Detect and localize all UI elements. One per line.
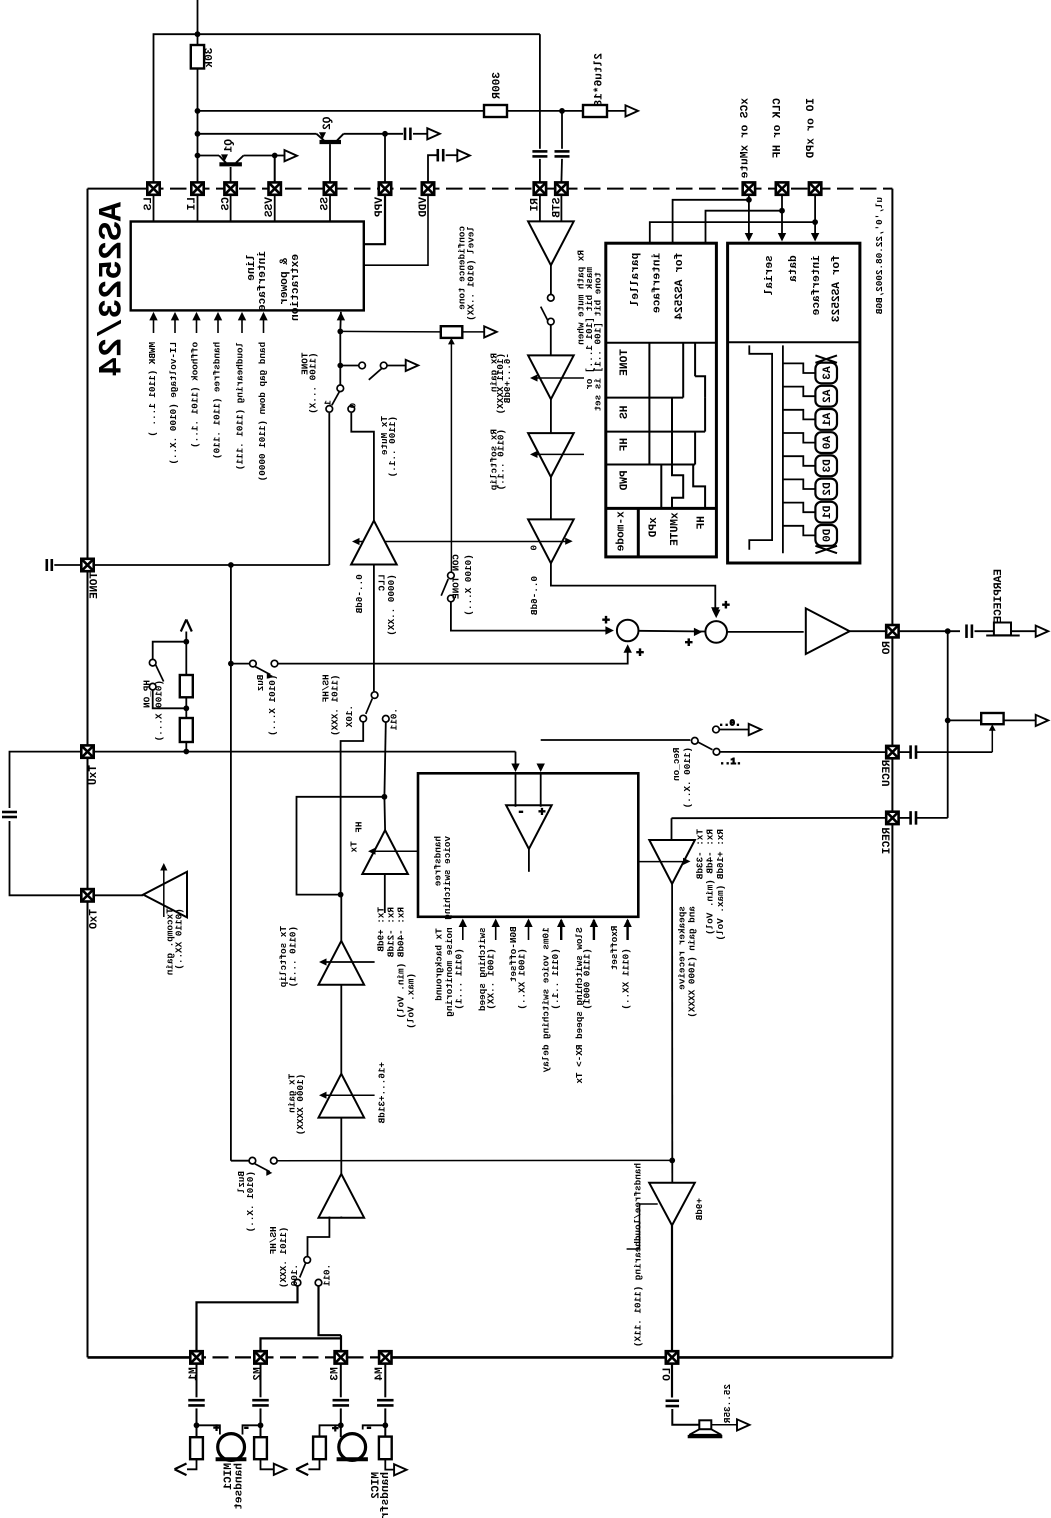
svg-text:(1101 .XXX): (1101 .XXX) (329, 675, 340, 736)
svg-text:for AS2523: for AS2523 (831, 255, 843, 322)
wire switch common up (339, 331, 341, 385)
junction Tx mute branch (337, 363, 343, 369)
amplifier LLC (351, 521, 397, 565)
svg-text:handset: handset (234, 1463, 246, 1510)
capacitor VDD decoupling (436, 149, 439, 162)
svg-text:TxO: TxO (89, 909, 101, 929)
junction pot net (945, 718, 951, 724)
svg-text:ul,'0',22.08.2002,BGB: ul,'0',22.08.2002,BGB (874, 197, 885, 315)
svg-text:25..35R: 25..35R (722, 1384, 733, 1423)
wire into summing 1 (451, 602, 606, 631)
svg-text:.011: .011 (389, 708, 400, 731)
svg-text:D0: D0 (822, 529, 834, 543)
svg-text:.011: .011 (322, 1264, 333, 1287)
gain control arrow Rx gain (533, 377, 584, 379)
off-page arrow speaker return (737, 1419, 750, 1430)
svg-text:(0111 XX..): (0111 XX..) (621, 948, 632, 1009)
svg-text:(1001 ..XX): (1001 ..XX) (485, 948, 496, 1009)
svg-text:and gain (1000 XXXX): and gain (1000 XXXX) (687, 906, 698, 1018)
wire VPP into block (364, 195, 385, 244)
capacitor earpiece coupling (965, 624, 968, 638)
svg-text:(0111 ...1): (0111 ...1) (454, 948, 465, 1009)
svg-text:tone bit [100 ..1] is set: tone bit [100 ..1] is set (593, 272, 604, 411)
junction LI/RI line (195, 31, 201, 37)
switch HS/HF mic select (304, 1257, 311, 1264)
svg-text:handsfree (1101 .110): handsfree (1101 .110) (212, 342, 223, 459)
svg-text:handsfree/loudhearing (1101 .1: handsfree/loudhearing (1101 .11X) (632, 1163, 643, 1347)
svg-text:VSS: VSS (264, 197, 276, 217)
resistor HP divider upper (180, 675, 193, 697)
svg-text:(0111 ..1.): (0111 ..1.) (550, 948, 561, 1009)
pin TxO (81, 889, 93, 901)
junction HF Tx output (382, 794, 388, 800)
svg-text:Q2: Q2 (322, 117, 334, 131)
resistor MIC2 bias - (379, 1437, 392, 1460)
wire VSS into block (274, 195, 276, 222)
svg-text:(1001 XX..): (1001 XX..) (517, 948, 528, 1009)
wires LS LI CS into block (153, 195, 155, 222)
svg-text:(0110 ...1): (0110 ...1) (288, 926, 299, 987)
wire to VPP pin (384, 134, 386, 183)
capacitor VPP decoupling (404, 128, 407, 141)
off-page arrow record out (749, 724, 762, 735)
junction STB branch (559, 108, 565, 114)
amplifier Tx softclip (319, 941, 365, 985)
svg-text:offhook (1101 .1..): offhook (1101 .1..) (190, 342, 201, 448)
pin RECU (886, 746, 898, 758)
svg-text:(1100 ...X): (1100 ...X) (307, 353, 318, 414)
off-page arrow pot (484, 326, 497, 337)
wire 300R net (198, 110, 485, 112)
svg-text:Tx background: Tx background (433, 928, 444, 1001)
svg-text:+: + (538, 806, 545, 820)
svg-text:+16...+31dB: +16...+31dB (376, 1062, 387, 1124)
svg-text:STB: STB (552, 198, 564, 218)
wire RECI to speaker amp (671, 818, 673, 840)
svg-text:-: - (243, 1421, 250, 1435)
amplifier Tx gain (319, 1074, 365, 1118)
wire HP divider (185, 632, 187, 676)
svg-text:RO: RO (882, 641, 894, 655)
svg-text:IO or xPD: IO or xPD (806, 98, 818, 159)
svg-text:(1110 0001): (1110 0001) (582, 948, 593, 1009)
wire TONE external (54, 564, 81, 566)
svg-text:(1100 ..1.): (1100 ..1.) (387, 416, 398, 477)
leader line handsfree/loudhearing (627, 1204, 658, 1249)
wire STB branch (561, 111, 563, 149)
svg-text:RI: RI (530, 198, 542, 211)
wire Q2 emitter net (198, 133, 317, 135)
svg-text:+: + (332, 1424, 339, 1436)
svg-text:xMUTE: xMUTE (670, 512, 682, 546)
amplifier speaker receive (649, 840, 695, 884)
block handsfree voice switching (418, 773, 638, 917)
potentiometer confidence tone level (441, 326, 463, 338)
svg-text:PWD: PWD (619, 470, 631, 490)
svg-text:TxU: TxU (88, 765, 100, 785)
arrow into line interface block (337, 312, 345, 321)
svg-text:(0101 X...): (0101 X...) (267, 675, 278, 736)
svg-text:serial: serial (764, 255, 776, 295)
wire HF contact (384, 722, 385, 797)
wire SS into block (329, 195, 331, 222)
capacitor TxU-TxO (2, 811, 17, 814)
svg-text:extraction: extraction (290, 254, 302, 321)
wire M2 to M3 node (261, 1338, 342, 1351)
switch TONE/LLC select (337, 385, 344, 392)
junction Buz branch (228, 661, 234, 667)
amplifier Txcomp gain (143, 872, 187, 918)
svg-text:(0110 XX..): (0110 XX..) (173, 908, 184, 969)
svg-text:CS: CS (221, 197, 233, 211)
junction HP_ON top (183, 639, 189, 645)
IC boundary top edge (dashed) (88, 188, 148, 190)
svg-text:interface: interface (652, 253, 664, 314)
svg-text:interface: interface (811, 255, 823, 316)
svg-text:Rx: +16dB (max. Vol): Rx: +16dB (max. Vol) (715, 829, 726, 941)
wire RO external (899, 630, 960, 632)
control arrow Tx softclip (322, 961, 375, 963)
junction VPP net (382, 131, 388, 137)
wire HF Tx input stub (384, 875, 386, 913)
junction TONE net (228, 562, 234, 568)
wire Buz to summing 1 (278, 647, 628, 663)
svg-text:(0000 ..XX): (0000 ..XX) (386, 574, 397, 635)
svg-text:xCS or xMute: xCS or xMute (740, 98, 752, 179)
svg-text:0..-6dB: 0..-6dB (529, 576, 540, 615)
off-page arrow VPP (427, 128, 440, 139)
resistor 300R (484, 105, 507, 117)
svg-text:+: + (685, 635, 693, 650)
junction HF net (779, 208, 785, 214)
svg-text:+: + (636, 646, 644, 661)
svg-text:2ltu6*18: 2ltu6*18 (594, 53, 606, 107)
capacitor RECU (909, 745, 912, 759)
pins M3 M4 with coupling caps (335, 1351, 347, 1363)
loudspeaker 25..35R (699, 1420, 711, 1429)
svg-text:x-mode: x-mode (616, 511, 628, 551)
wire TONE internal net (94, 564, 330, 566)
svg-text:Rxoffset: Rxoffset (609, 926, 620, 971)
junction HP_ON divider (183, 749, 189, 755)
svg-text:MWBK (1101 1... ): MWBK (1101 1... ) (147, 342, 158, 437)
svg-text:loudhearing (1101 .111): loudhearing (1101 .111) (235, 342, 246, 470)
pin RECI (886, 812, 898, 824)
wire Tx chain (340, 895, 342, 941)
svg-text:LS: LS (143, 197, 155, 211)
svg-text:LO: LO (662, 1368, 674, 1382)
arrow into handsfree input 2 (537, 764, 545, 773)
svg-text:TONE: TONE (619, 349, 631, 376)
wire Q2 base to SS pin (329, 144, 331, 182)
wire HF contact to M3 (319, 1286, 342, 1335)
microphone MIC1 handset (218, 1434, 245, 1461)
svg-text:(1100 .X..): (1100 .X..) (682, 747, 693, 808)
svg-text:(0110 ..1.): (0110 ..1.) (496, 429, 507, 490)
wire Q1 emitter net (198, 155, 220, 157)
off-page arrow VDD (457, 150, 470, 161)
control arrow speaker amp (638, 861, 687, 863)
IC boundary right edge (891, 189, 893, 1358)
capacitor at STB (555, 150, 570, 153)
supply arrow MIC2 (308, 1459, 319, 1469)
svg-text:parallel: parallel (630, 253, 642, 307)
control arrow line LLC/0..-6dB (355, 541, 569, 543)
svg-text:A1: A1 (822, 413, 834, 427)
amplifier +9dB speaker driver (649, 1183, 695, 1226)
svg-text:M4: M4 (374, 1367, 386, 1381)
wire Rx select to Tx mic amp (308, 1217, 330, 1257)
svg-text:(1000 XXXX): (1000 XXXX) (295, 1074, 306, 1135)
svg-text:-6...+9dB: -6...+9dB (502, 353, 513, 404)
wire TxU external (10, 752, 82, 808)
svg-text:HF: HF (696, 516, 708, 530)
wire LS net (154, 34, 198, 182)
junction Tx chain (338, 892, 344, 898)
junction HP_ON bottom (183, 705, 189, 711)
capacitor RECI (899, 817, 911, 819)
svg-text:HP_ON: HP_ON (141, 680, 152, 708)
switch CON TONE (448, 572, 455, 579)
wire MIC2 terminals (320, 1425, 341, 1436)
svg-text:..1.: ..1. (719, 756, 741, 767)
amplifier receive output (806, 608, 850, 654)
wire HF loop to Tx chain (297, 797, 385, 895)
svg-text:Q1: Q1 (224, 139, 236, 153)
wire VDD into block (364, 195, 428, 265)
block serial data interface for AS2523 (728, 243, 860, 563)
pins LS LI CS VSS SS VPP VDD RI STB xCS CLK IO (147, 182, 159, 194)
svg-text:LI: LI (187, 197, 199, 210)
summing node 1 (617, 620, 639, 642)
wire M3 stub (340, 1335, 342, 1351)
svg-text:30k: 30k (204, 48, 216, 68)
switch HS/HF Tx select (371, 692, 378, 699)
svg-text:AS2523/24: AS2523/24 (94, 202, 131, 376)
svg-text:-: - (517, 805, 524, 819)
wire comparator output (528, 849, 530, 872)
svg-text:Tx: Tx (348, 841, 359, 853)
svg-text:+: + (602, 613, 610, 628)
wire IO/xPD entry (814, 195, 816, 222)
wire Buzl to speaker path (277, 1159, 672, 1161)
amplifier Rx input (528, 221, 574, 265)
transistor Q1 (219, 162, 242, 166)
wire HS contact to Tx chain (341, 722, 364, 895)
IC boundary bottom edge (88, 1356, 191, 1359)
ground arrow MIC1 (261, 1459, 274, 1469)
svg-text:A0: A0 (822, 436, 834, 450)
svg-text:SS: SS (320, 197, 332, 211)
capacitor speaker coupling (666, 1399, 680, 1402)
amplifier Tx mic input (319, 1174, 365, 1218)
switch Buzl (249, 1157, 256, 1164)
svg-text:D2: D2 (822, 482, 834, 496)
resistor 2ltu6*18 (583, 105, 607, 117)
svg-text:RECI: RECI (882, 827, 894, 854)
wire MIC1 terminals (197, 1425, 220, 1434)
svg-text:Rec_on: Rec_on (671, 748, 682, 782)
svg-text:TONE: TONE (89, 572, 101, 599)
gain control arrow Txcomp (163, 866, 165, 917)
svg-text:RECU: RECU (882, 760, 894, 787)
off-page arrow line out (626, 105, 639, 116)
svg-text:band gap down (1101 0000): band gap down (1101 0000) (257, 342, 268, 481)
wire to RECU pin (720, 751, 886, 753)
svg-text:HS: HS (619, 406, 631, 420)
wire LI net to top edge (197, 0, 199, 45)
switch Rec_on (692, 738, 699, 745)
svg-text:VDD: VDD (418, 197, 430, 217)
wire TxU internal net (94, 751, 516, 753)
off-page arrow Tx Mute (406, 360, 419, 371)
junction xMute net (746, 197, 752, 203)
svg-text:+9dB: +9dB (694, 1198, 705, 1221)
svg-text:300R: 300R (492, 72, 504, 99)
wire CLK/HF entry (781, 195, 783, 211)
junction speaker path (669, 1158, 675, 1164)
pins M1 M2 with coupling caps (190, 1351, 202, 1363)
wire TONE to switch 1 (328, 413, 330, 565)
wire to LO pin (671, 1225, 673, 1351)
svg-text:(1101 .XXX): (1101 .XXX) (278, 1227, 289, 1288)
pin RO (886, 625, 898, 637)
block parallel interface for AS2524 (606, 243, 717, 557)
junction xPD net (812, 219, 818, 225)
svg-text:voice switching: voice switching (442, 836, 453, 920)
supply arrow MIC1 (187, 1459, 197, 1469)
svg-text:M2: M2 (253, 1367, 265, 1381)
op-amp voice switching comparator (506, 805, 552, 849)
svg-text:for AS2524: for AS2524 (674, 253, 686, 320)
junction RO net (945, 628, 951, 634)
wire LLC input (373, 565, 375, 692)
capacitor at RI (532, 150, 547, 153)
svg-text:handsfree: handsfree (380, 1472, 392, 1518)
wire LI vertical (197, 69, 199, 183)
potentiometer earpiece volume (948, 719, 982, 721)
arrows handsfree parameters (462, 920, 464, 940)
wire to VSS pin (274, 156, 276, 183)
transistor Q2 (320, 140, 342, 144)
svg-text:-: - (365, 1421, 372, 1435)
svg-text:A3: A3 (822, 366, 834, 380)
svg-text:interface: interface (257, 251, 269, 312)
block line interface and power extraction (131, 222, 364, 311)
wire LLC output to switch 0 (351, 413, 374, 521)
svg-text:A2: A2 (822, 390, 834, 404)
amplifier 0..-6dB (528, 519, 574, 563)
switch Buz (250, 660, 257, 667)
off-page arrow VSS (285, 150, 298, 161)
svg-text:xPD: xPD (648, 517, 660, 537)
summing node 2 (705, 621, 727, 643)
wire comparator inputs (515, 773, 517, 807)
earpiece (994, 623, 1011, 636)
svg-text:M3: M3 (330, 1367, 342, 1381)
svg-text:M1: M1 (188, 1367, 200, 1381)
wire xCS/xMute entry (748, 195, 750, 200)
bus bit boxes A3 A2 A1 A0 D3 D2 D1 D0 (815, 363, 837, 384)
svg-text:data: data (788, 255, 800, 282)
svg-text:HF: HF (354, 822, 365, 834)
switch Rx path mute (550, 265, 552, 294)
wire speaker path (671, 884, 673, 1183)
wire TONE vertical to Buzl (230, 565, 232, 1161)
svg-text:EARPIECE: EARPIECE (993, 569, 1005, 623)
ground arrow MIC2 (385, 1459, 395, 1469)
resistor 30k (191, 45, 204, 69)
svg-text:(max. Vol): (max. Vol) (405, 973, 416, 1029)
svg-text:Buz: Buz (255, 675, 266, 692)
wire summing1 to summing2 (639, 630, 706, 633)
wire Q1 base to CS pin (230, 167, 232, 182)
wire VDD net (428, 155, 438, 182)
wire TxO output (94, 894, 144, 896)
svg-text:CON TONE: CON TONE (450, 554, 461, 599)
switch HP_ON (153, 642, 187, 660)
supply arrow HP divider (181, 620, 187, 632)
svg-text:LI-voltage (0100 .X..): LI-voltage (0100 .X..) (168, 342, 179, 465)
IC AS2523 boundary left edge (87, 189, 89, 1358)
resistor HP divider lower (180, 718, 193, 742)
svg-text:(0100 X...): (0100 X...) (153, 680, 164, 741)
svg-text:0: 0 (528, 545, 539, 551)
gain control arrow Tx gain (322, 1094, 375, 1096)
amplifier HF Tx (362, 830, 408, 874)
resistor MIC1 bias - (254, 1437, 267, 1459)
svg-text:0..-6dB: 0..-6dB (354, 574, 365, 613)
wire to confidence tone pot (340, 330, 441, 333)
amplifier Rx softclip (528, 433, 574, 477)
control arrow HF Tx (371, 850, 418, 852)
svg-text:CLK or HF: CLK or HF (772, 98, 784, 159)
resistor MIC2 bias + (313, 1437, 326, 1460)
switch Tx Mute (340, 365, 359, 367)
off-page arrow earpiece (1036, 626, 1049, 637)
wire to RI pin (539, 159, 541, 183)
svg-text:D1: D1 (822, 506, 834, 520)
pin LO (666, 1351, 678, 1363)
serial comb bus (782, 345, 784, 553)
svg-text:..0.: ..0. (718, 718, 740, 729)
svg-text:1: 1 (323, 400, 334, 406)
svg-text:level (0101 ..XX): level (0101 ..XX) (465, 226, 476, 321)
wire RO to volume pot (947, 631, 949, 818)
svg-text:.10X: .10X (344, 705, 355, 728)
wire HS contact to M1 (197, 1286, 298, 1351)
pin TONE (81, 559, 93, 571)
svg-text:+: + (722, 598, 730, 613)
pin TxU (81, 745, 93, 757)
svg-text:.100: .100 (289, 1264, 300, 1287)
resistor MIC1 bias + (190, 1437, 203, 1459)
svg-text:(0100 X...): (0100 X...) (463, 554, 474, 615)
wire into handsfree input 1 (515, 752, 517, 769)
capacitor at TONE pin (45, 559, 48, 571)
pot wiper to RECU (989, 724, 996, 731)
control arrow Rx softclip (533, 453, 584, 455)
junction VSS net (272, 153, 278, 159)
svg-text:HF: HF (619, 438, 631, 452)
svg-text:0: 0 (348, 403, 359, 409)
wire 0..-6dB output to summing 2 (551, 563, 715, 612)
wire RI to amp (539, 195, 541, 222)
off-page arrow pot end (1036, 715, 1049, 726)
wire Rec_on to handsfree input 2 (541, 739, 691, 741)
amplifier Rx gain (528, 355, 574, 399)
serial bus route (749, 345, 772, 549)
